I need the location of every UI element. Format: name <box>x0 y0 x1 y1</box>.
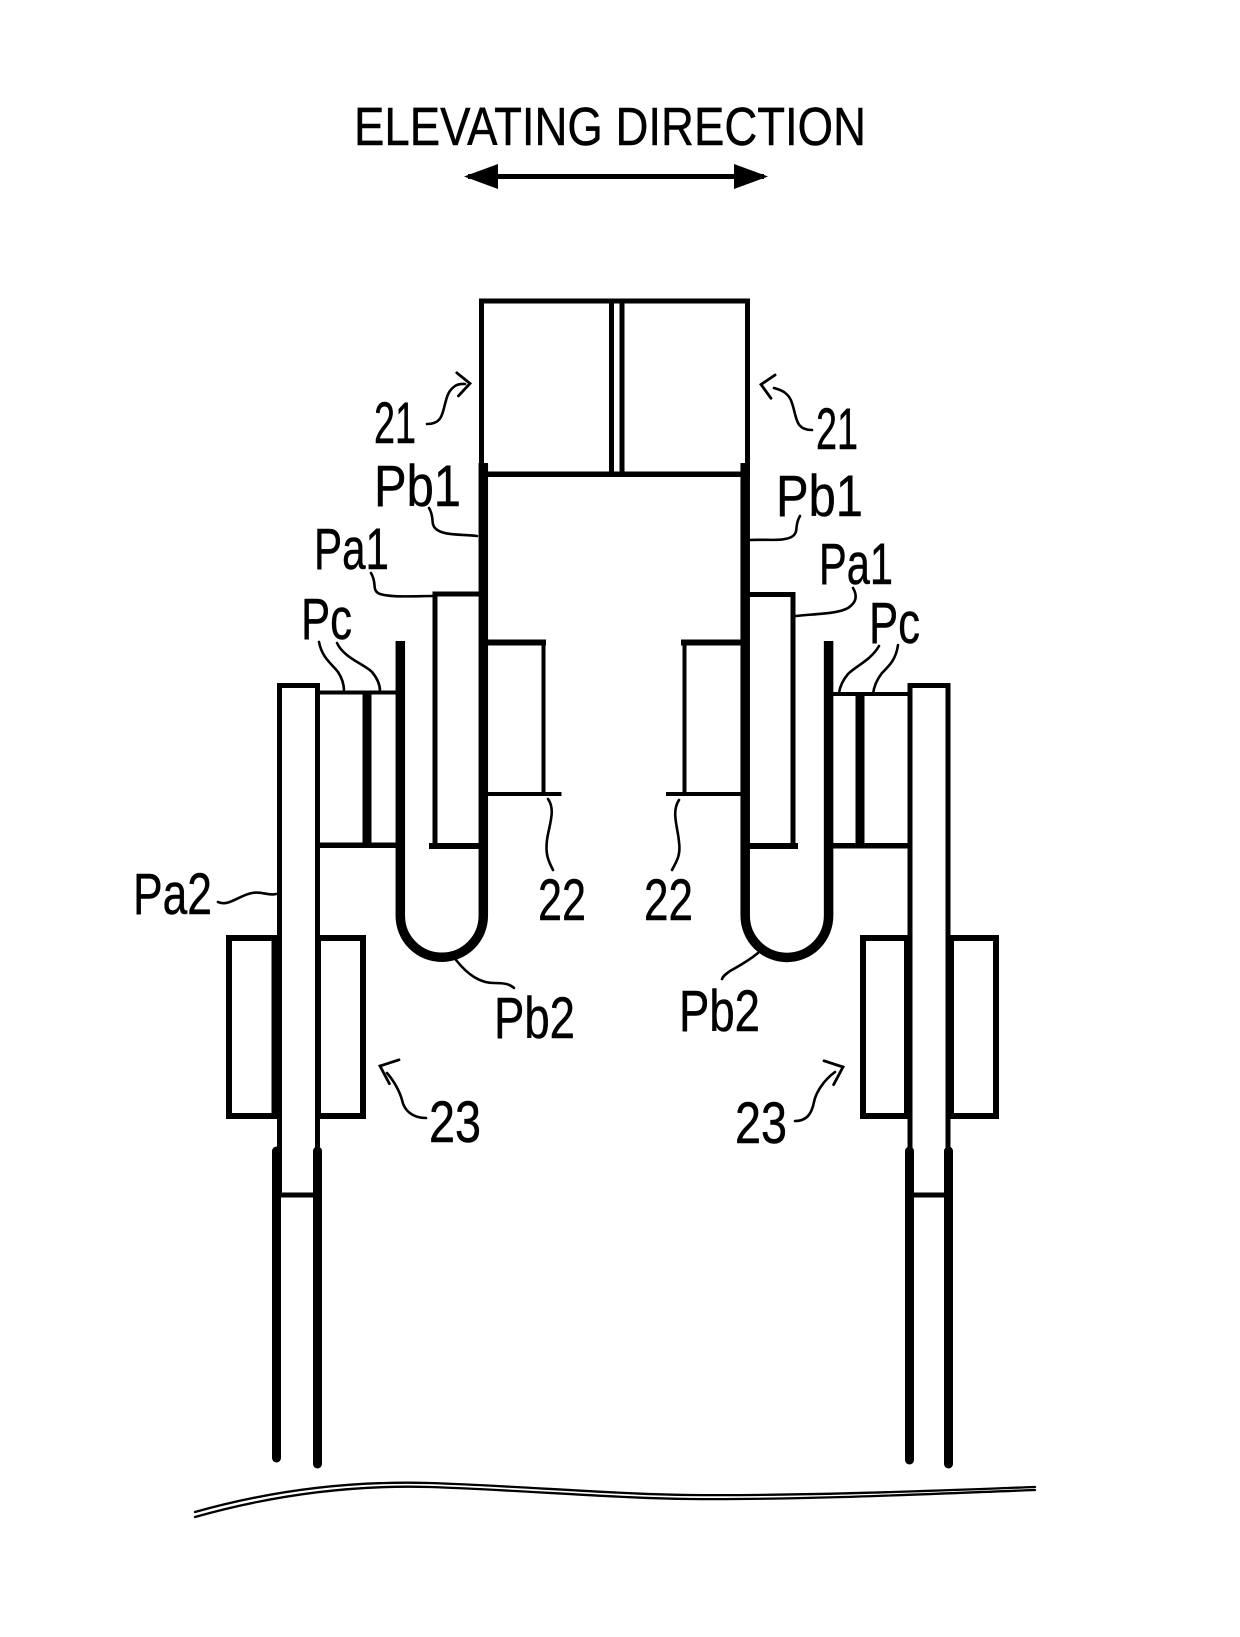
svg-text:Pa1: Pa1 <box>819 532 893 597</box>
svg-text:Pc: Pc <box>301 587 352 652</box>
svg-text:Pa1: Pa1 <box>314 517 389 582</box>
svg-text:23: 23 <box>735 1091 787 1156</box>
svg-text:Pb2: Pb2 <box>679 979 760 1044</box>
svg-text:21: 21 <box>374 391 416 456</box>
svg-text:Pb2: Pb2 <box>494 986 575 1051</box>
svg-text:Pc: Pc <box>869 591 920 656</box>
svg-text:Pb1: Pb1 <box>374 454 461 519</box>
svg-text:22: 22 <box>644 868 693 933</box>
svg-text:21: 21 <box>816 397 858 462</box>
svg-text:22: 22 <box>538 868 586 933</box>
svg-text:ELEVATING DIRECTION: ELEVATING DIRECTION <box>354 98 866 157</box>
svg-text:23: 23 <box>429 1090 481 1155</box>
svg-text:Pa2: Pa2 <box>133 862 212 927</box>
svg-text:Pb1: Pb1 <box>776 464 863 529</box>
